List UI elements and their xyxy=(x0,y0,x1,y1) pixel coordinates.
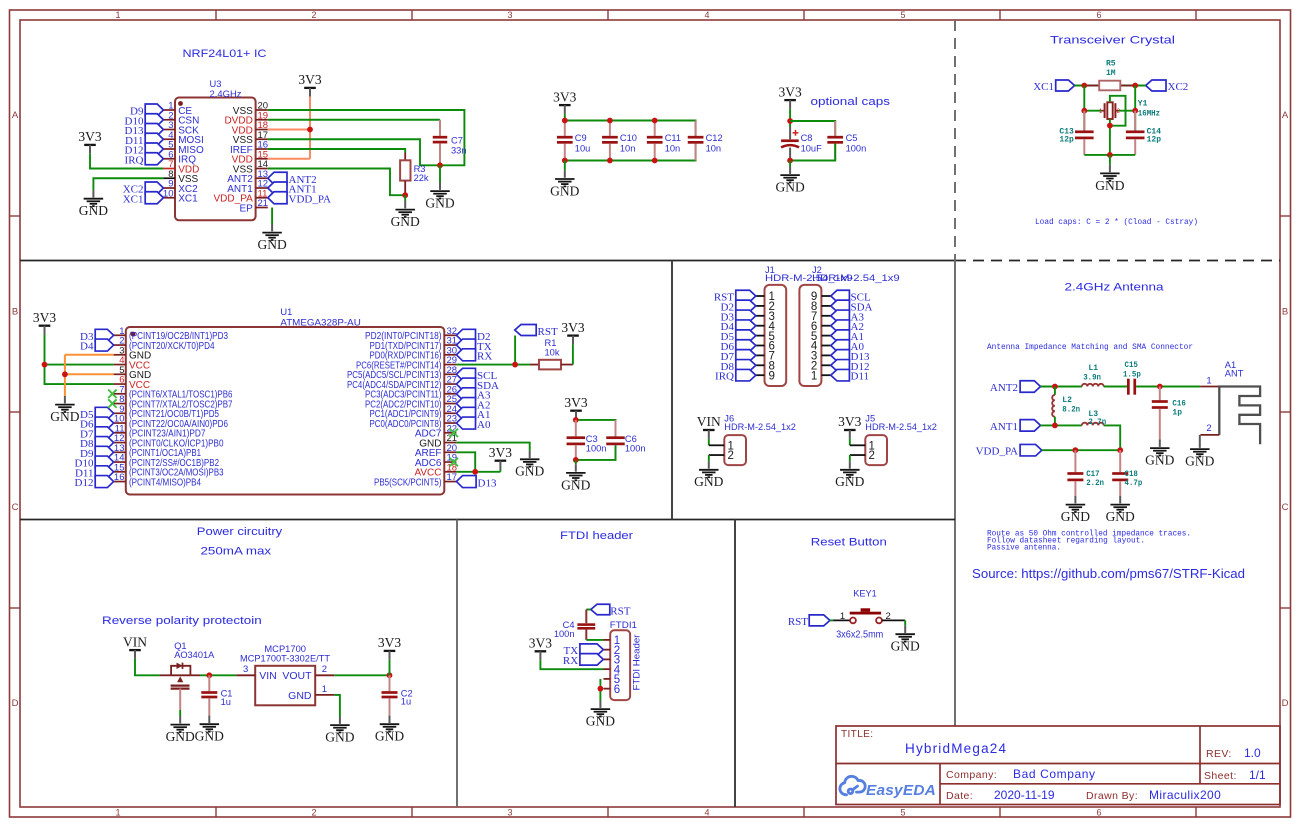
wire GND pin3 orange xyxy=(65,354,114,356)
wire J5 pin2 to ground xyxy=(849,455,851,461)
section divider horizontal middle xyxy=(20,519,955,521)
U3 pin 21 EP xyxy=(256,207,268,209)
node junction C9 top xyxy=(562,118,568,124)
wire bottom rail C9-C12 xyxy=(565,144,696,161)
port XC2 xyxy=(145,182,163,194)
wire Q1 drain to MCP1700 xyxy=(200,674,236,676)
svg-text:Y1: Y1 xyxy=(1138,100,1148,109)
port ANT2 xyxy=(1020,381,1040,393)
FTDI1 pin 1 lead xyxy=(604,639,611,641)
3V3 power above U3 xyxy=(298,72,321,97)
svg-text:D: D xyxy=(12,698,19,709)
J1 pin 9 lead xyxy=(756,374,765,376)
U1 pin 27 PC4(ADC4/SDA/PCINT12) xyxy=(444,383,456,385)
svg-text:2: 2 xyxy=(1206,423,1211,434)
capacitor xyxy=(433,120,448,166)
wire MCP1700 GND to ground xyxy=(334,695,340,717)
U1 pin 2 (PCINT20/XCK/T0)PD4 xyxy=(114,344,126,346)
svg-text:10n: 10n xyxy=(620,143,636,153)
svg-text:Passive antenna.: Passive antenna. xyxy=(987,544,1061,553)
antenna A1 pin2 lead xyxy=(1200,434,1219,436)
3V3 power above C8 xyxy=(778,84,801,109)
J2 pin 3 lead xyxy=(821,354,830,356)
port A1 at J2 xyxy=(831,330,850,342)
svg-text:3: 3 xyxy=(243,664,248,675)
node junction C8/C5 top xyxy=(787,118,793,124)
svg-text:HybridMega24: HybridMega24 xyxy=(905,741,1007,756)
U1 pin 9 (PCINT21/OC0B/T1)PD5 xyxy=(114,412,126,414)
svg-text:3V3: 3V3 xyxy=(561,320,584,335)
wire 3V3 to VCC pins xyxy=(45,335,114,385)
node junction C10 top xyxy=(607,118,613,124)
svg-text:1M: 1M xyxy=(1106,69,1116,78)
svg-text:C: C xyxy=(1282,502,1289,513)
U1 pin 15 (PCINT3/OC2A/MOSI)PB3 xyxy=(114,471,126,473)
ground under crystal xyxy=(1095,165,1124,193)
capacitor xyxy=(201,675,217,715)
U1 pin 25 PC2(ADC2/PCINT10) xyxy=(444,403,456,405)
svg-text:GND: GND xyxy=(257,237,286,252)
port ANT1 xyxy=(268,182,287,194)
svg-text:GND: GND xyxy=(375,729,404,744)
node junction C9 bottom xyxy=(562,158,568,164)
U1 pin 6 VCC xyxy=(114,383,126,385)
ground under U3 EP xyxy=(257,224,286,252)
svg-text:VIN: VIN xyxy=(697,414,721,429)
svg-text:9: 9 xyxy=(769,370,775,382)
svg-text:FTDI Header: FTDI Header xyxy=(632,635,642,691)
U1 pin 20 AREF xyxy=(444,451,456,453)
J1 pin 4 lead xyxy=(756,325,765,327)
U3 pin 18 VDD xyxy=(256,129,268,131)
svg-text:Power circuitry: Power circuitry xyxy=(197,526,283,538)
ground under C7 xyxy=(425,183,454,211)
U3 pin 8 VSS xyxy=(163,177,175,179)
wire pin14 VSS to GND xyxy=(268,169,405,196)
ground under FTDI xyxy=(586,701,615,729)
svg-text:Drawn By:: Drawn By: xyxy=(1086,790,1138,802)
node junction XC2 branch xyxy=(1132,83,1138,89)
svg-text:10k: 10k xyxy=(545,348,560,358)
FTDI1 pin 6 lead xyxy=(604,688,611,690)
svg-text:EasyEDA: EasyEDA xyxy=(866,782,936,799)
J1 pin 3 lead xyxy=(756,315,765,317)
node junction crystal right xyxy=(1132,108,1138,114)
svg-text:C10: C10 xyxy=(620,133,637,143)
svg-text:Miraculix200: Miraculix200 xyxy=(1149,788,1221,802)
ground left of U1 xyxy=(50,396,79,424)
wire VIN to J6 pin1 xyxy=(708,439,710,446)
wire Q1 gate to ground xyxy=(179,689,181,710)
svg-text:GND: GND xyxy=(391,214,420,229)
port A3 xyxy=(456,388,475,400)
U3 pin 16 IREF xyxy=(256,148,268,150)
svg-text:2: 2 xyxy=(322,664,327,675)
port D12 xyxy=(95,476,113,488)
ground under C18 xyxy=(1106,496,1135,524)
svg-text:10u: 10u xyxy=(575,143,591,153)
svg-text:3V3: 3V3 xyxy=(378,635,401,650)
svg-text:VIN: VIN xyxy=(259,670,277,682)
svg-text:D4: D4 xyxy=(80,341,94,353)
capacitor C11 xyxy=(647,121,663,161)
wire C4 to FTDI pin1 xyxy=(586,639,603,641)
svg-text:GND: GND xyxy=(1106,509,1135,524)
U3 pin 15 VDD xyxy=(256,158,268,160)
node junction crystal left xyxy=(1081,108,1087,114)
wire C7 to ground xyxy=(439,165,441,182)
U3 pin 4 MOSI xyxy=(163,138,175,140)
capacitor xyxy=(1067,450,1083,496)
port D13 at J2 xyxy=(831,350,850,362)
svg-text:Sheet:: Sheet: xyxy=(1204,770,1237,782)
wire XC1 to R5 xyxy=(1075,85,1100,87)
svg-text:D12: D12 xyxy=(75,477,94,489)
svg-text:3V3: 3V3 xyxy=(778,84,801,99)
transistor Q1 AO3401A xyxy=(160,663,200,689)
wire 3V3 to J5 pin1 xyxy=(849,439,851,446)
U1 pin 16 (PCINT4/MISO)PB4 xyxy=(114,481,126,483)
svg-text:GND: GND xyxy=(1185,454,1214,469)
J2 pin 8 lead xyxy=(821,305,830,307)
wire 3V3 to FTDI pin4 xyxy=(540,660,603,669)
port VDD_PA xyxy=(1020,444,1042,456)
svg-text:C9: C9 xyxy=(575,133,587,143)
op-amp U3 NRF24L01 IC body xyxy=(175,98,256,221)
svg-text:(PCINT4/MISO)PB4: (PCINT4/MISO)PB4 xyxy=(129,477,201,488)
svg-text:GND: GND xyxy=(694,474,723,489)
svg-text:C18: C18 xyxy=(1125,470,1139,479)
ground under C1 xyxy=(195,716,224,744)
svg-text:2: 2 xyxy=(728,450,734,462)
capacitor C10 xyxy=(602,121,618,161)
svg-text:RST: RST xyxy=(538,326,558,338)
U1 pin 26 PC3(ADC3/PCINT11) xyxy=(444,393,456,395)
connector J2 body xyxy=(799,285,821,386)
ground under U3 pin8 xyxy=(79,190,108,218)
J5 pin 2 lead xyxy=(850,454,866,456)
svg-text:Antenna Impedance Matching and: Antenna Impedance Matching and SMA Conne… xyxy=(987,343,1193,352)
svg-text:1/1: 1/1 xyxy=(1249,768,1266,782)
U3 pin 10 XC1 xyxy=(163,197,175,199)
svg-text:XC2: XC2 xyxy=(1168,81,1189,93)
node junction ANT2/L2 xyxy=(1052,384,1058,390)
svg-text:16MHz: 16MHz xyxy=(1138,110,1160,119)
wire EP pad to ground xyxy=(271,208,273,225)
svg-text:1: 1 xyxy=(115,10,120,20)
svg-text:IRQ: IRQ xyxy=(125,154,144,166)
svg-text:GND: GND xyxy=(195,729,224,744)
svg-text:GND: GND xyxy=(79,203,108,218)
svg-text:U3: U3 xyxy=(210,79,222,89)
capacitor C8 polarized xyxy=(781,127,799,161)
J2 pin 7 lead xyxy=(821,315,830,317)
svg-text:1: 1 xyxy=(840,611,845,622)
svg-text:3V3: 3V3 xyxy=(564,395,587,410)
svg-text:GND: GND xyxy=(325,730,354,745)
3V3 power at AVCC xyxy=(489,445,512,470)
port D7 xyxy=(95,427,113,439)
section divider dashed vertical xyxy=(954,20,956,261)
wire 3V3 stub down xyxy=(389,660,391,676)
wire J6 pin2 to ground xyxy=(708,455,710,461)
capacitor xyxy=(1075,111,1094,155)
port RST at J1 xyxy=(736,290,756,302)
svg-text:VDD_PA: VDD_PA xyxy=(976,446,1018,458)
connector J6 body xyxy=(724,435,746,465)
wire R1 to 3V3 xyxy=(572,344,574,364)
svg-text:6: 6 xyxy=(1096,808,1101,818)
svg-text:RX: RX xyxy=(477,351,492,363)
svg-text:2: 2 xyxy=(311,10,316,20)
wire 3V3 to C3/C6 rail xyxy=(575,420,577,422)
J2 pin 4 lead xyxy=(821,345,830,347)
svg-text:C17: C17 xyxy=(1086,470,1100,479)
svg-text:RX: RX xyxy=(563,655,578,667)
wire VCC pin4 xyxy=(45,364,114,366)
port D13 xyxy=(456,476,476,488)
svg-text:AO3401A: AO3401A xyxy=(174,650,215,660)
svg-text:3x6x2.5mm: 3x6x2.5mm xyxy=(836,629,883,641)
svg-text:4: 4 xyxy=(704,10,709,20)
connector J1 body xyxy=(765,285,787,386)
MCP1700 pin 3 VIN xyxy=(236,674,255,676)
U1 pin 4 VCC xyxy=(114,364,126,366)
port VDD_PA xyxy=(268,192,287,204)
U1 pin 19 ADC6 xyxy=(444,461,456,463)
wire C9 rail to ground xyxy=(564,161,566,171)
J1 pin 2 lead xyxy=(756,305,765,307)
wire top rail C9-C12 xyxy=(565,121,696,137)
svg-text:B: B xyxy=(1282,307,1288,318)
J1 pin 8 lead xyxy=(756,364,765,366)
port D10 xyxy=(145,114,163,126)
svg-text:C8: C8 xyxy=(801,133,813,143)
ground under C17 xyxy=(1061,496,1090,524)
port RST at reset button xyxy=(809,615,830,626)
U1 pin 32 PD2(INT0/PCINT18) xyxy=(444,334,456,336)
wire R3 to ground xyxy=(404,195,406,201)
ground under KEY1 xyxy=(891,626,920,654)
3V3 power above J5 xyxy=(838,414,861,439)
node junction C11 bottom xyxy=(652,158,658,164)
capacitor xyxy=(1112,450,1128,496)
node junction C8 bottom xyxy=(787,158,793,164)
node junction C16 branch xyxy=(1157,384,1163,390)
node junction C17 xyxy=(1073,447,1079,453)
EasyEDA logo xyxy=(840,776,865,795)
wire pin20 AREF down xyxy=(456,452,475,472)
port RX xyxy=(580,654,603,666)
wire antenna pin2 to ground xyxy=(1199,435,1201,441)
node junction C3 top xyxy=(573,417,579,423)
wire VOUT to 3V3 xyxy=(334,674,389,676)
svg-text:XC1: XC1 xyxy=(123,193,144,205)
ground under C16 xyxy=(1145,440,1174,468)
svg-text:GND: GND xyxy=(775,180,804,195)
inductor L2 xyxy=(1054,387,1056,395)
J1 pin 1 lead xyxy=(756,295,765,297)
node junction AREF/AVCC xyxy=(472,469,478,475)
svg-text:ANT1: ANT1 xyxy=(990,421,1018,433)
svg-text:D11: D11 xyxy=(851,371,870,383)
wire XC2 down to crystal/C14 xyxy=(1134,86,1136,132)
svg-text:VDD_PA: VDD_PA xyxy=(289,193,331,205)
svg-text:ANT2: ANT2 xyxy=(990,382,1018,394)
svg-text:GND: GND xyxy=(550,183,579,198)
svg-text:3V3: 3V3 xyxy=(529,636,552,651)
svg-text:C15: C15 xyxy=(1125,361,1139,370)
node junction ANT1/L2 xyxy=(1052,423,1058,429)
svg-text:IRQ: IRQ xyxy=(715,371,734,383)
svg-text:C7: C7 xyxy=(451,136,463,146)
3V3 power at FTDI xyxy=(529,636,552,661)
J1 pin 6 lead xyxy=(756,345,765,347)
svg-text:6: 6 xyxy=(1096,10,1101,20)
FTDI1 pin 5 lead xyxy=(604,678,611,680)
port A2 at J2 xyxy=(831,320,850,332)
svg-text:PB5(SCK/PCINT5): PB5(SCK/PCINT5) xyxy=(374,477,442,488)
svg-text:1: 1 xyxy=(115,808,120,818)
svg-text:33n: 33n xyxy=(451,146,467,156)
wire 3V3 stub to AVCC xyxy=(499,470,501,472)
svg-text:2: 2 xyxy=(886,611,891,622)
port D7 at J1 xyxy=(736,350,756,362)
ground under C2 xyxy=(375,716,404,744)
U1 pin 8 (PCINT7/XTAL2/TOSC2)PB7 xyxy=(114,403,126,405)
svg-text:EP: EP xyxy=(239,203,253,214)
svg-text:R1: R1 xyxy=(545,338,557,348)
svg-text:Reset Button: Reset Button xyxy=(811,537,887,549)
svg-text:GND: GND xyxy=(586,714,615,729)
capacitor xyxy=(606,420,625,460)
U3 pin 6 IRQ xyxy=(163,158,175,160)
svg-text:5: 5 xyxy=(900,10,905,20)
U3 pin 14 VSS xyxy=(256,168,268,170)
svg-text:3V3: 3V3 xyxy=(298,72,321,87)
J2 pin 1 lead xyxy=(821,374,830,376)
svg-text:3: 3 xyxy=(507,10,512,20)
svg-text:GND: GND xyxy=(288,690,312,702)
svg-text:C5: C5 xyxy=(846,133,858,143)
ground under J5 xyxy=(835,461,864,489)
svg-text:3V3: 3V3 xyxy=(33,310,56,325)
no-connect X pin7 xyxy=(108,390,116,398)
wire pin20 VSS to GND rail xyxy=(268,110,465,165)
port D9 xyxy=(145,104,163,116)
port D10 xyxy=(95,456,113,468)
svg-text:1.0: 1.0 xyxy=(1244,746,1261,760)
wire 3V3 down to C8 xyxy=(789,109,791,127)
svg-text:Date:: Date: xyxy=(946,790,973,802)
J2 pin 6 lead xyxy=(821,325,830,327)
port A3 at J2 xyxy=(831,310,850,322)
svg-text:L1: L1 xyxy=(1088,364,1098,373)
svg-text:2: 2 xyxy=(869,450,875,462)
svg-text:1u: 1u xyxy=(221,697,231,707)
U3 pin 17 VSS xyxy=(256,138,268,140)
title block table xyxy=(836,726,1280,805)
port A2 xyxy=(456,398,475,410)
3V3 power at VOUT xyxy=(378,635,401,660)
resistor R1 xyxy=(530,364,539,366)
svg-text:10uF: 10uF xyxy=(801,143,823,153)
svg-text:12p: 12p xyxy=(1147,135,1162,144)
port XC2 xyxy=(1146,80,1166,91)
U3 pin 1 CE xyxy=(163,109,175,111)
svg-text:D13: D13 xyxy=(478,477,497,489)
svg-text:U1: U1 xyxy=(280,307,292,317)
wire GND pin5 orange xyxy=(65,373,114,375)
svg-text:1: 1 xyxy=(1206,376,1211,387)
U1 pin 29 PC6(RESET#/PCINT14) xyxy=(444,364,456,366)
port D12 xyxy=(145,143,163,155)
svg-text:B: B xyxy=(12,307,18,318)
U3 pin 20 VSS xyxy=(256,109,268,111)
svg-text:C12: C12 xyxy=(706,133,723,143)
svg-text:RST: RST xyxy=(788,616,808,628)
svg-text:HDR-M-2.54_1x9: HDR-M-2.54_1x9 xyxy=(812,273,900,283)
svg-text:6: 6 xyxy=(614,684,620,696)
port D8 at J1 xyxy=(736,360,756,372)
wire VDD_PA rail xyxy=(1042,449,1120,451)
svg-text:TITLE:: TITLE: xyxy=(841,729,873,740)
svg-text:3.9n: 3.9n xyxy=(1083,374,1101,383)
capacitor xyxy=(1126,111,1145,155)
ground under R3 xyxy=(391,201,420,229)
wire pin17 VSS down xyxy=(268,139,440,165)
svg-text:D: D xyxy=(1282,698,1289,709)
svg-text:Source: https://github.com/pms: Source: https://github.com/pms67/STRF-Ki… xyxy=(972,566,1245,581)
svg-text:GND: GND xyxy=(835,474,864,489)
port SDA at J2 xyxy=(831,300,850,312)
wire top rail C3-C6 xyxy=(576,420,616,437)
ground under C9 rail xyxy=(550,170,579,198)
port IRQ at J1 xyxy=(736,369,756,381)
node junction 3V3/VDD xyxy=(307,127,313,133)
svg-text:2020-11-19: 2020-11-19 xyxy=(994,788,1055,802)
port D11 xyxy=(145,133,163,145)
U3 pin 11 VDD_PA xyxy=(256,197,268,199)
svg-text:3V3: 3V3 xyxy=(553,89,576,104)
port A0 xyxy=(456,417,475,429)
port XC1 xyxy=(145,192,163,204)
svg-text:8.2n: 8.2n xyxy=(1062,406,1080,415)
wire crystal left xyxy=(1084,110,1101,112)
U1 pin 10 (PCINT22/OC0A/AIN0)PD6 xyxy=(114,422,126,424)
svg-text:2: 2 xyxy=(311,808,316,818)
U1 pin 1 (PCINT19/OC2B/INT1)PD3 xyxy=(114,334,126,336)
svg-text:3V3: 3V3 xyxy=(489,445,512,460)
port ANT2 xyxy=(268,172,287,184)
port RST xyxy=(515,325,536,336)
crystal Y1 xyxy=(1099,102,1121,119)
port RST at FTDI xyxy=(591,604,610,615)
svg-text:GND: GND xyxy=(1145,453,1174,468)
svg-text:GND: GND xyxy=(515,464,544,479)
regulator U2 MCP1700 body xyxy=(255,666,315,706)
port D8 xyxy=(95,437,113,449)
svg-text:A: A xyxy=(1282,110,1289,121)
wire pin29 RESET xyxy=(456,364,530,366)
wire XC1 down to crystal/C13 xyxy=(1083,86,1085,132)
svg-text:L2: L2 xyxy=(1062,396,1072,405)
port D13 xyxy=(145,124,163,136)
svg-text:10n: 10n xyxy=(706,143,722,153)
U3 pin 3 SCK xyxy=(163,129,175,131)
wire 3V3 salmon vertical xyxy=(309,97,311,159)
J2 pin 5 lead xyxy=(821,335,830,337)
